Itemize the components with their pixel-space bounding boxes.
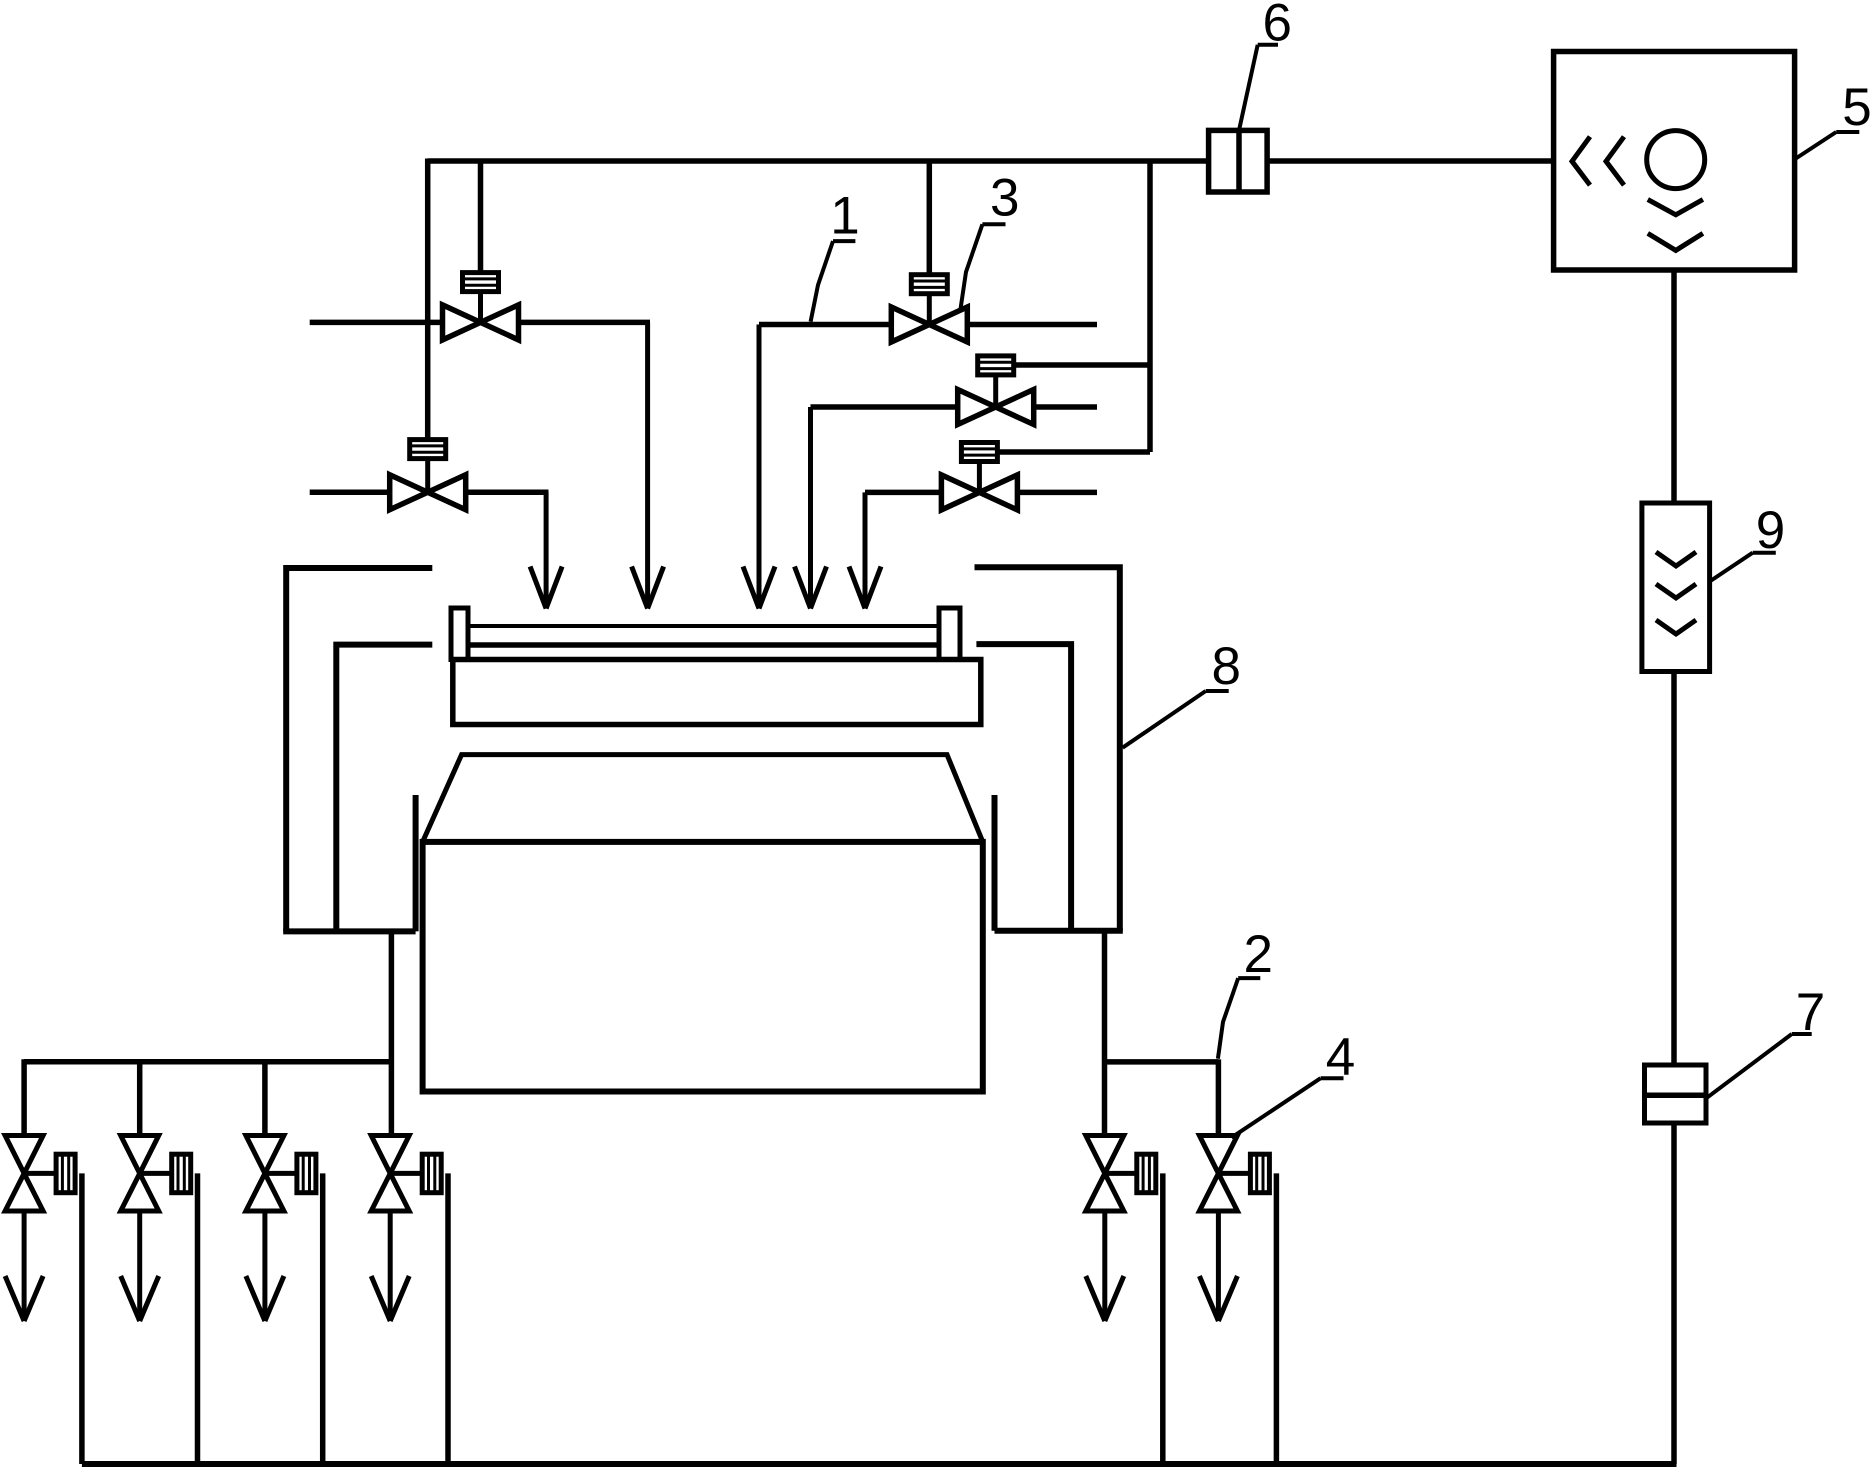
label 8 with leader line <box>1123 637 1241 748</box>
wire: header stub to valve B3 <box>262 1062 268 1138</box>
furnace shell 8: inner right wall <box>992 795 998 931</box>
work chamber hood (trapezoid top) <box>423 755 983 842</box>
wire: drop from header feeding V4/V5 actuator lines <box>1147 159 1153 453</box>
arrow: gas injection from V2 into furnace <box>530 492 562 608</box>
arrow: gas injection line 1 into furnace <box>743 325 775 609</box>
valve V3 (actuated globe valve) <box>891 275 967 342</box>
wire: right furnace drain down through header to valve B5 <box>1102 931 1108 1138</box>
conveyor right post <box>939 608 960 660</box>
valve B1 (vertical purge valve with actuator) <box>5 1136 75 1212</box>
furnace shell 8: middle left wall <box>336 645 432 932</box>
valve B2 (vertical purge valve with actuator) <box>121 1136 191 1212</box>
wire: valve V5 inlet pipe <box>865 490 941 496</box>
valve B3 (vertical purge valve with actuator) <box>246 1136 316 1212</box>
valve V1 (actuated globe valve) <box>443 273 519 340</box>
conveyor lower rail (thick) <box>468 642 939 648</box>
wire: bottom-right valve header <box>1105 1059 1219 1065</box>
conveyor upper rail <box>468 624 939 628</box>
label 3 with leader line <box>961 169 1020 309</box>
wire: bottom return bus <box>82 1461 1677 1467</box>
wire: drop from header to valve V2 (crosses V1 pipe) <box>425 159 431 440</box>
label 4 with leader line <box>1232 1028 1356 1138</box>
svg-text:3: 3 <box>990 169 1019 228</box>
conveyor tray <box>453 660 981 725</box>
arrow: vent below valve B3 <box>246 1211 284 1321</box>
valve V4 (actuated globe valve) <box>958 356 1034 425</box>
wire: valve V1 outlet pipe <box>518 320 650 326</box>
arrow: gas injection from V4 into furnace <box>795 407 827 609</box>
element 9 (vertical check/flow unit) <box>1642 503 1710 672</box>
arrow: vent below valve B6 <box>1199 1211 1237 1321</box>
wire: valve B6 actuator branch down to return bus <box>1274 1173 1280 1464</box>
svg-text:5: 5 <box>1842 78 1871 137</box>
wire: top supply header from flowmeter 6 to blower 5 <box>1267 158 1556 164</box>
wire: blower 5 outlet down to element 9 <box>1671 270 1677 503</box>
wire: top supply header from corner to flowmeter 6 <box>428 158 1209 164</box>
wire: element 9 down to element 7 <box>1671 672 1677 1066</box>
wire: valve V2 inlet pipe <box>310 489 390 495</box>
furnace shell 8: left bottom <box>283 928 415 934</box>
wire: drop from header to valve V3 actuator <box>927 161 933 275</box>
wire: element 7 down to bottom return bus <box>1671 1123 1677 1464</box>
wire: valve B2 actuator branch down to return bus <box>195 1173 201 1464</box>
wire: drop from header to valve V1 actuator <box>478 161 484 273</box>
furnace shell 8: middle right wall <box>976 644 1071 931</box>
arrow: gas injection from V5 into furnace <box>849 492 881 608</box>
wire: valve V4 inlet pipe <box>811 404 958 410</box>
valve V5 (actuated globe valve) <box>941 443 1017 510</box>
furnace shell 8: outer right wall <box>975 567 1120 931</box>
wire: valve B1 actuator branch down to return bus <box>79 1173 85 1464</box>
wire: valve V3 inlet pipe (corner from arrow drop) <box>759 322 891 328</box>
wire: valve B5 actuator branch down to return bus <box>1160 1173 1166 1464</box>
label 6 with leader line <box>1239 0 1292 130</box>
svg-text:1: 1 <box>830 187 859 246</box>
label 2 with leader line <box>1218 925 1273 1059</box>
label 7 with leader line <box>1707 983 1825 1098</box>
svg-text:8: 8 <box>1212 637 1241 696</box>
wire: valve V2 outlet pipe <box>465 489 548 495</box>
valve B4 (vertical purge valve with actuator) <box>371 1136 441 1212</box>
wire: valve B3 actuator branch down to return bus <box>320 1173 326 1464</box>
label 9 with leader line <box>1710 501 1786 582</box>
arrow: vent below valve B2 <box>121 1211 159 1321</box>
wire: valve V1 inlet pipe <box>310 320 443 326</box>
arrow: vent below valve B5 <box>1086 1211 1124 1321</box>
wire: valve B4 actuator branch down to return bus <box>445 1173 451 1464</box>
conveyor left post <box>451 608 468 660</box>
wire: valve V4 outlet pipe <box>1034 404 1097 410</box>
work chamber box <box>423 842 983 1092</box>
wire: branch to valve V4 actuator <box>1015 362 1150 368</box>
wire: bottom-left valve bank header <box>24 1059 390 1065</box>
wire: header corner drop to valve B1 <box>21 1059 27 1138</box>
element 7 (inline unit) <box>1645 1065 1707 1123</box>
valve V2 (actuated globe valve) <box>390 440 466 510</box>
arrow: gas injection from V1 into furnace <box>632 322 664 608</box>
svg-text:2: 2 <box>1243 925 1272 984</box>
furnace shell 8: inner left wall <box>413 795 419 931</box>
arrow: vent below valve B4 <box>371 1211 409 1321</box>
wire: valve V3 outlet pipe <box>968 322 1097 328</box>
blower unit 5 (box with flow symbols) <box>1554 52 1795 271</box>
arrow: vent below valve B1 <box>5 1211 43 1321</box>
wire: left furnace drain down to valve bank header and valve B4 <box>389 931 395 1138</box>
label 1 with leader line <box>811 187 860 322</box>
valve B6 (vertical purge valve with actuator) <box>1199 1136 1269 1212</box>
valve B5 (vertical purge valve with actuator) <box>1086 1136 1156 1212</box>
wire: branch to valve V5 actuator <box>998 449 1150 455</box>
wire: header corner drop to valve B6 <box>1216 1059 1222 1138</box>
flow element 6 (inline meter) <box>1209 130 1268 192</box>
furnace shell 8: outer left wall <box>286 568 432 931</box>
furnace shell 8: right bottom <box>995 928 1123 934</box>
label 5 with leader line <box>1796 78 1872 159</box>
wire: header stub to valve B2 <box>137 1062 143 1138</box>
wire: valve V5 outlet pipe <box>1017 490 1097 496</box>
